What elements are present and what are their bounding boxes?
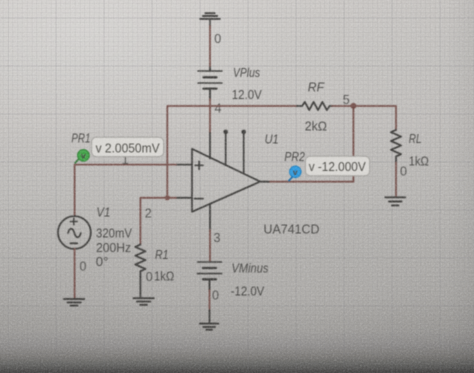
wire (pin 3 to VMinus) (209, 230, 211, 262)
resistor RL (1k) (391, 130, 401, 163)
wire (top ground to VPlus battery) (209, 19, 211, 26)
ground (under VMinus) (200, 324, 218, 330)
tooltip PR1 (92, 137, 164, 156)
probe PR2 circle (290, 166, 302, 178)
pin stub (inverting input) (176, 197, 192, 199)
probe PR1 circle (78, 150, 90, 162)
probe PR2 pointer (289, 177, 293, 181)
op-amp offset null stub pin 5 (243, 134, 245, 174)
op-amp plus input marking (195, 161, 203, 169)
probe PR1 pointer (75, 159, 79, 163)
op-amp offset null stub pin 1 (225, 134, 227, 165)
junction node 5 (350, 103, 356, 109)
ground (under RL) (385, 197, 405, 205)
ground (under R1) (134, 298, 154, 305)
wire (output to feedback corner) (270, 181, 353, 183)
ac source V1 (58, 216, 91, 249)
ground (top, net 0, above VPlus) (200, 13, 220, 19)
wire (VPlus to op-amp pin 4, net 4) (209, 99, 211, 133)
tooltip PR2 (305, 156, 369, 175)
wire (op-amp output up to node 5) (352, 106, 354, 182)
wire (junction left to R1 top, net 2) (140, 198, 167, 245)
resistor RF (2k) (297, 102, 333, 110)
wire (junction to inverting input stub) (167, 197, 176, 199)
wire (VMinus to ground) (209, 290, 211, 310)
pin stub (non-inverting input) (176, 164, 192, 166)
pin stub (output) (261, 181, 270, 183)
resistor R1 (1k) (135, 245, 145, 278)
junction (inverting input node 2) (165, 195, 170, 200)
wire (feedback top: node 2 side up and across to RF) (167, 106, 297, 198)
dc source VPlus battery (198, 68, 222, 100)
pin 3 stub of op-amp (209, 204, 211, 230)
wire (RL to ground) (395, 163, 397, 197)
op-amp U1 triangle (192, 149, 260, 212)
wire (RF to node 5 and on to RL) (332, 106, 396, 130)
wire (R1 to ground) (139, 278, 141, 298)
wire (V1 top to op-amp + input, net 1) (75, 165, 176, 217)
pin 4 stub of op-amp (209, 133, 211, 159)
wire (V1 bottom to ground) (74, 249, 76, 298)
ground (under V1) (64, 299, 84, 306)
dc source VMinus battery (198, 262, 222, 290)
op-amp minus input marking (195, 198, 203, 200)
